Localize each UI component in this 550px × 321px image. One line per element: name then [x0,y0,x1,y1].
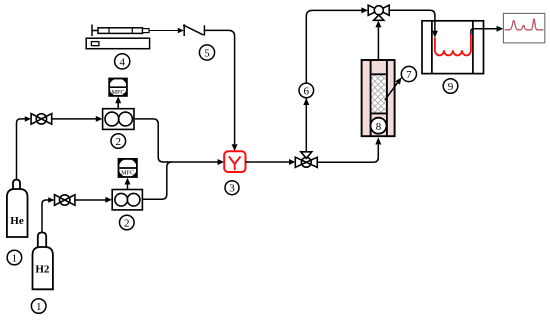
MFC1 [109,78,127,96]
svg-text:1: 1 [12,252,18,264]
svg-text:5: 5 [204,47,210,59]
label 3 [225,181,239,195]
wire top valve to furnace [389,10,435,31]
svg-text:2: 2 [124,217,130,229]
label 2 (row1) [111,134,126,149]
injector 5 (septum port) [183,24,205,36]
gas cylinder He [7,180,28,237]
wire valve V6 up to top corner and top valve [306,10,362,151]
svg-text:6: 6 [304,85,310,97]
wire pump P2 to mix junction [142,162,171,199]
arrow into top valve [361,7,368,13]
wire injector to Y mixer [204,30,234,144]
arrow into injector [178,28,184,34]
label 9 [443,79,458,94]
pump P1 [103,109,134,130]
svg-text:MFC: MFC [111,89,124,96]
detector (chromatogram) [503,13,544,43]
pump P2 [112,190,142,210]
wire junction to Y mixer [167,161,219,163]
svg-text:7: 7 [406,69,412,81]
label 7 [401,66,416,81]
arrow into valve V6 [289,159,295,165]
svg-text:9: 9 [448,81,454,93]
wire Y mixer to valve V6 [246,161,291,163]
arrow into Y mixer (top) [232,144,238,151]
MFC2 [119,159,137,177]
arrow into pump P1 [96,116,103,122]
column tube walls [371,60,387,136]
wire pump P1 to mix junction [134,119,168,162]
label 2 (row2) [120,215,135,230]
wire H2 cylinder to valve V2 [42,200,49,233]
arrow into valve V1 [25,116,31,122]
svg-text:2: 2 [116,136,122,148]
arrow into top valve bottom [375,21,381,28]
svg-text:3: 3 [229,183,235,195]
label 6 [299,83,314,98]
wire valve V1 to pump P1 [52,118,97,120]
arrow into detector [497,26,504,32]
wire valve V6 to column bottom [317,145,378,163]
wire furnace outlet to detector [471,29,498,34]
wire syringe needle to injector [149,30,179,32]
arrow pump P1 to MFC1 [115,96,121,108]
arrow into Y mixer (left) [218,159,225,165]
arrow on riser below label 6 [303,98,309,105]
svg-text:1: 1 [36,301,42,313]
wire column top to top valve [377,28,379,60]
syringe SY [92,25,149,37]
Y mixer (3) [224,151,245,172]
svg-text:MFC: MFC [121,170,134,177]
valve V1 [31,114,52,125]
valve V6 (3-way) [295,152,317,168]
svg-text:He: He [10,215,24,227]
wire valve V2 to pump P2 [75,199,106,201]
svg-text:8: 8 [376,121,382,133]
label 1 (H2) [31,299,46,314]
label 8 [371,118,387,134]
gas cylinder H2 [33,233,53,290]
valve V2 [55,195,75,206]
top valve VT (3-way) [368,5,389,20]
svg-text:H2: H2 [35,264,50,276]
label 1 (He) [7,250,22,265]
red coil in furnace [435,34,471,56]
syringe pump box [86,38,149,49]
label 4 [115,54,130,69]
arrow into valve V2 [48,197,54,203]
label 5 [199,45,214,60]
arrow pump P2 to MFC2 [125,178,131,190]
wire He cylinder to valve V1 [17,119,27,180]
svg-text:4: 4 [119,56,125,68]
catalyst bed (hatched) [290,71,466,117]
arrow toward label 7 [395,77,401,84]
furnace 9 (water bath) [422,21,484,74]
arrow into furnace coil [432,31,438,38]
pointer line to label 7 [385,81,399,100]
arrow into pump P2 [105,197,112,203]
arrow into column bottom [375,137,381,144]
column outer shell (pink) [362,60,395,136]
